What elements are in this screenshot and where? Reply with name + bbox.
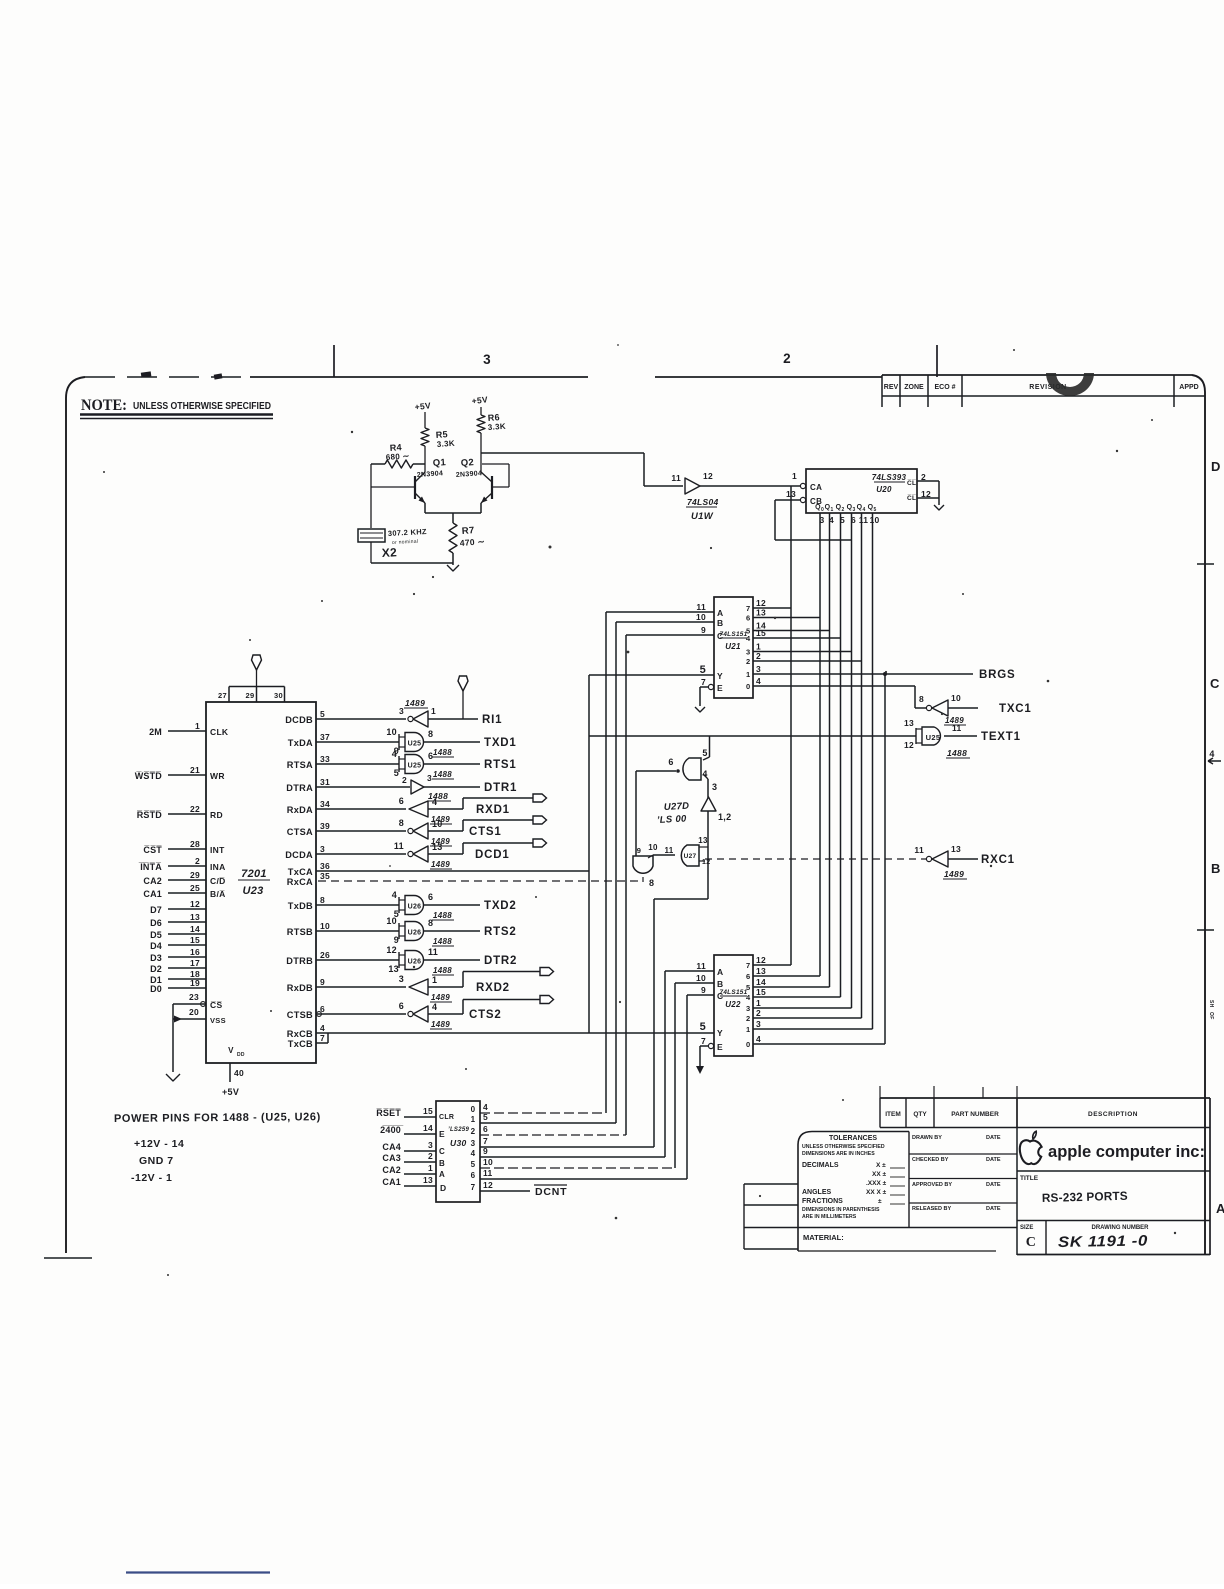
- svg-text:A: A: [717, 967, 723, 977]
- svg-text:9: 9: [320, 977, 325, 987]
- transistor Q2 2N3904: [456, 433, 509, 503]
- svg-text:13: 13: [388, 964, 399, 974]
- svg-text:DRAWING NUMBER: DRAWING NUMBER: [1092, 1225, 1150, 1231]
- svg-text:A: A: [439, 1170, 445, 1179]
- svg-text:1: 1: [746, 670, 750, 679]
- svg-text:4: 4: [432, 797, 437, 807]
- wire oscillator bottom: [371, 562, 453, 564]
- svg-text:11: 11: [696, 602, 706, 612]
- svg-text:CTS1: CTS1: [469, 826, 502, 838]
- svg-text:C/D̅: C/D̅: [210, 876, 226, 886]
- title block: parts list header: [880, 1086, 1210, 1128]
- node label BRGS: [979, 669, 1015, 681]
- svg-text:DTR2: DTR2: [484, 955, 517, 967]
- nand U27c (down): [633, 771, 654, 888]
- svg-text:INA: INA: [210, 862, 226, 872]
- svg-text:13: 13: [423, 1175, 433, 1185]
- +5V flag at R5: [414, 400, 431, 428]
- svg-text:10: 10: [951, 693, 961, 703]
- svg-text:30: 30: [274, 691, 283, 700]
- svg-text:TXC1: TXC1: [999, 703, 1032, 715]
- svg-text:DECIMALS: DECIMALS: [802, 1162, 839, 1169]
- svg-text:B: B: [717, 979, 723, 989]
- svg-text:9: 9: [701, 625, 706, 635]
- svg-text:10: 10: [386, 727, 397, 737]
- zone letter D: [1211, 459, 1221, 474]
- svg-text:21: 21: [190, 765, 200, 775]
- punch hole mark: [1046, 373, 1094, 396]
- svg-text:WR: WR: [210, 771, 225, 781]
- svg-text:8: 8: [320, 895, 325, 905]
- svg-text:W̅S̅T̅D̅: W̅S̅T̅D̅: [135, 771, 163, 781]
- ground at U21 E: [695, 687, 708, 712]
- svg-text:11: 11: [428, 947, 438, 957]
- svg-text:1489: 1489: [431, 993, 450, 1002]
- svg-text:RD: RD: [210, 810, 223, 820]
- svg-text:U30: U30: [450, 1138, 467, 1148]
- svg-text:1: 1: [432, 975, 437, 985]
- svg-text:U27: U27: [684, 853, 697, 860]
- svg-text:B: B: [439, 1159, 445, 1168]
- svg-text:29: 29: [190, 870, 200, 880]
- latch left input wires: [376, 1106, 436, 1187]
- svg-text:2̅4̅0̅0̅: 2̅4̅0̅0̅: [380, 1125, 404, 1135]
- zone letter A: [1216, 1201, 1224, 1216]
- svg-text:VSS: VSS: [210, 1016, 226, 1025]
- svg-text:2: 2: [746, 657, 750, 666]
- svg-text:RXD1: RXD1: [476, 804, 510, 816]
- svg-text:’LS 00: ’LS 00: [657, 813, 688, 826]
- svg-text:A: A: [717, 608, 723, 618]
- wire select bus B1: [615, 622, 617, 1123]
- title block: material row: [798, 1233, 996, 1251]
- svg-text:TEXT1: TEXT1: [981, 731, 1021, 743]
- svg-text:U22: U22: [725, 1000, 741, 1009]
- svg-text:D2: D2: [150, 964, 162, 974]
- svg-text:APPROVED BY: APPROVED BY: [912, 1182, 952, 1188]
- svg-text:D5: D5: [150, 930, 162, 940]
- svg-text:3: 3: [427, 773, 432, 783]
- receiver 1489 DCD1: [316, 839, 547, 869]
- svg-text:B: B: [717, 618, 723, 628]
- svg-text:DATE: DATE: [986, 1135, 1001, 1141]
- svg-text:5: 5: [471, 1160, 476, 1169]
- svg-text:2: 2: [195, 856, 200, 866]
- svg-text:11: 11: [671, 473, 681, 483]
- label U27 LS00: [657, 801, 690, 826]
- svg-text:+12V - 14: +12V - 14: [134, 1138, 184, 1150]
- title block: signoff cells: [909, 1098, 1017, 1255]
- svg-text:U26: U26: [408, 904, 422, 911]
- transistor Q1 2N3904: [371, 446, 447, 503]
- sio U23 7201: [206, 702, 316, 1063]
- ground at U22 E: [696, 1046, 708, 1074]
- svg-text:C̅L̅: C̅L̅: [907, 494, 916, 502]
- svg-text:TXD2: TXD2: [484, 900, 517, 912]
- svg-text:34: 34: [320, 799, 330, 809]
- right border ticks: [1197, 564, 1214, 930]
- svg-text:BRGS: BRGS: [979, 669, 1015, 681]
- receiver 1489 TXC1: [919, 693, 978, 725]
- svg-text:2: 2: [841, 507, 844, 513]
- svg-text:TxDA: TxDA: [288, 738, 313, 748]
- svg-text:C̅S̅T̅: C̅S̅T̅: [143, 845, 162, 855]
- svg-text:TXD1: TXD1: [484, 737, 517, 749]
- svg-text:SH: SH: [1208, 1000, 1214, 1008]
- svg-text:10: 10: [648, 843, 658, 852]
- svg-text:10: 10: [386, 916, 397, 926]
- svg-text:31: 31: [320, 777, 330, 787]
- counter U20 74LS393: [786, 469, 917, 525]
- svg-text:1: 1: [428, 1163, 433, 1173]
- svg-text:28: 28: [190, 839, 200, 849]
- wire TxCA net vertical: [588, 675, 590, 1033]
- svg-text:CA4: CA4: [382, 1142, 401, 1152]
- svg-text:12: 12: [756, 598, 766, 608]
- svg-text:INT: INT: [210, 845, 225, 855]
- svg-text:CA: CA: [810, 483, 822, 492]
- svg-text:74LS393: 74LS393: [872, 473, 907, 482]
- driver 1488 U25 TXD1: [316, 727, 517, 757]
- svg-text:U26: U26: [408, 930, 422, 937]
- svg-text:.XXX ±: .XXX ±: [866, 1180, 887, 1187]
- wire clock bus vertical: [790, 486, 792, 965]
- svg-text:D3: D3: [150, 953, 162, 963]
- revision block header: [882, 375, 1205, 407]
- svg-text:C̅S̅: C̅S̅: [210, 1000, 222, 1010]
- svg-text:7: 7: [471, 1183, 476, 1192]
- svg-text:74LS04: 74LS04: [687, 497, 719, 507]
- svg-text:5: 5: [702, 748, 707, 758]
- svg-text:2: 2: [428, 1151, 433, 1161]
- inverter U1W 74LS04: [671, 471, 718, 522]
- svg-text:MATERIAL:: MATERIAL:: [803, 1233, 844, 1242]
- svg-text:1489: 1489: [405, 698, 425, 708]
- svg-text:16: 16: [190, 947, 200, 957]
- svg-text:36: 36: [320, 861, 330, 871]
- wire Q0 bus vertical: [819, 513, 821, 976]
- svg-text:RTSB: RTSB: [287, 927, 313, 937]
- driver 1488 U25 RTS1: [316, 749, 517, 779]
- svg-text:DIMENSIONS ARE IN INCHES: DIMENSIONS ARE IN INCHES: [802, 1151, 875, 1157]
- svg-text:7: 7: [746, 961, 750, 970]
- wire RxCB TxCB to U22 Y: [316, 1033, 714, 1043]
- crystal X2 307.2 KHZ: [358, 464, 427, 563]
- svg-text:DIMENSIONS IN PARENTHESIS: DIMENSIONS IN PARENTHESIS: [802, 1207, 880, 1213]
- svg-text:U25: U25: [408, 741, 422, 748]
- svg-text:3.3K: 3.3K: [437, 439, 456, 449]
- nand U27a: [636, 748, 708, 780]
- driver 1488 U25 TEXT1: [904, 718, 977, 758]
- wire inverter to U20 CA: [700, 485, 800, 487]
- svg-text:2M: 2M: [149, 727, 162, 737]
- resistor R7 470: [449, 523, 485, 553]
- wire node BRGS: [753, 672, 973, 676]
- svg-text:SIZE: SIZE: [1020, 1225, 1033, 1231]
- svg-text:D: D: [440, 1183, 446, 1193]
- svg-text:5: 5: [394, 768, 399, 778]
- wire Q1 bus vertical: [829, 513, 831, 987]
- wire CB feedback from Q3: [775, 500, 852, 540]
- wire U23 top power bracket: [218, 687, 284, 703]
- svg-text:3: 3: [471, 1139, 476, 1148]
- svg-text:9: 9: [701, 985, 706, 995]
- svg-text:E: E: [439, 1129, 445, 1139]
- svg-text:DTRB: DTRB: [286, 956, 313, 966]
- svg-text:13: 13: [698, 836, 708, 845]
- svg-text:7: 7: [701, 677, 706, 687]
- svg-text:5: 5: [320, 709, 325, 719]
- wire select bus B2: [674, 983, 676, 1168]
- svg-text:2: 2: [756, 1008, 761, 1018]
- svg-text:12: 12: [702, 859, 710, 866]
- svg-text:15: 15: [423, 1106, 433, 1116]
- svg-text:RTS2: RTS2: [484, 926, 517, 938]
- svg-text:20: 20: [189, 1007, 199, 1017]
- svg-text:13: 13: [432, 842, 443, 852]
- latch output wires: [480, 1113, 687, 1191]
- svg-text:3: 3: [428, 1140, 433, 1150]
- svg-text:OF: OF: [1208, 1012, 1214, 1020]
- wire Q2 bus vertical: [840, 513, 842, 997]
- svg-text:U25: U25: [926, 733, 941, 742]
- svg-text:DATE: DATE: [986, 1157, 1001, 1163]
- svg-text:1: 1: [195, 721, 200, 731]
- svg-text:4: 4: [756, 676, 761, 686]
- svg-text:CA2: CA2: [143, 876, 162, 886]
- buffer U27 1,2-3: [701, 774, 731, 822]
- U23 VDD pin: [222, 1046, 245, 1097]
- svg-text:11: 11: [859, 515, 869, 525]
- svg-text:CTS2: CTS2: [469, 1009, 502, 1021]
- title block: left step rows: [744, 1184, 1017, 1249]
- svg-text:4: 4: [483, 1102, 488, 1112]
- svg-text:26: 26: [320, 950, 330, 960]
- svg-text:XX X ±: XX X ±: [866, 1189, 887, 1196]
- svg-text:1: 1: [756, 998, 761, 1008]
- svg-text:DTRA: DTRA: [286, 783, 313, 793]
- wire TEXT1 line: [589, 735, 916, 737]
- svg-text:D: D: [1211, 459, 1221, 474]
- wire oscillator output: [481, 453, 683, 486]
- svg-text:U23: U23: [242, 885, 263, 897]
- svg-text:X ±: X ±: [876, 1162, 886, 1169]
- wire RxCA dashed from U23: [318, 880, 641, 882]
- svg-text:15: 15: [756, 628, 766, 638]
- svg-text:3: 3: [399, 974, 404, 984]
- svg-text:12: 12: [190, 899, 200, 909]
- svg-text:UNLESS OTHERWISE SPECIFIED: UNLESS OTHERWISE SPECIFIED: [133, 401, 271, 412]
- +5V flag above U23: [252, 655, 262, 687]
- svg-text:4: 4: [432, 1002, 437, 1012]
- svg-text:D7: D7: [150, 905, 162, 915]
- svg-text:13: 13: [756, 608, 766, 618]
- svg-text:8: 8: [919, 694, 924, 704]
- driver 1488 U25 DTR1: [316, 773, 517, 801]
- svg-text:1,2: 1,2: [718, 812, 731, 822]
- svg-text:4: 4: [471, 1149, 476, 1158]
- svg-text:5: 5: [746, 983, 750, 992]
- svg-text:7201: 7201: [241, 868, 267, 880]
- svg-text:DATE: DATE: [986, 1182, 1001, 1188]
- svg-text:17: 17: [190, 958, 200, 968]
- svg-text:10: 10: [432, 819, 443, 829]
- receiver 1489 RXD1: [316, 794, 547, 824]
- svg-text:R̅S̅T̅D̅: R̅S̅T̅D̅: [137, 810, 163, 820]
- note heading: [80, 397, 273, 419]
- svg-text:35: 35: [320, 871, 330, 881]
- svg-text:22: 22: [190, 804, 200, 814]
- svg-text:3: 3: [712, 782, 717, 792]
- svg-text:R7: R7: [461, 525, 474, 537]
- svg-text:33: 33: [320, 754, 330, 764]
- receiver 1489 RXC1: [914, 844, 978, 879]
- svg-text:ECO #: ECO #: [934, 384, 955, 391]
- svg-text:U25: U25: [408, 763, 422, 770]
- svg-text:4: 4: [756, 1034, 761, 1044]
- svg-text:DCD1: DCD1: [475, 849, 510, 861]
- receiver 1489 RXD2: [316, 968, 554, 1003]
- latch U30 74LS259: [436, 1101, 493, 1202]
- svg-text:apple computer inc:: apple computer inc:: [1048, 1143, 1205, 1161]
- svg-text:13: 13: [756, 966, 766, 976]
- svg-text:12: 12: [386, 945, 397, 955]
- svg-text:D6: D6: [150, 918, 162, 928]
- wire select bus C1: [625, 635, 627, 1135]
- node label TEXT1: [981, 731, 1021, 743]
- wire buffer base down: [707, 811, 709, 899]
- svg-text:5: 5: [700, 1021, 706, 1033]
- wire collector node row: [371, 463, 425, 465]
- svg-text:6: 6: [471, 1171, 476, 1180]
- svg-text:7: 7: [701, 1036, 706, 1046]
- svg-text:1489: 1489: [431, 860, 450, 869]
- svg-text:DATE: DATE: [986, 1206, 1001, 1212]
- wire U22 select lines: [665, 971, 714, 995]
- sheet micro text: [1208, 1000, 1214, 1020]
- svg-text:GND 7: GND 7: [139, 1155, 174, 1167]
- receiver 1489 RI1: [316, 698, 478, 727]
- svg-text:ZONE: ZONE: [904, 384, 924, 391]
- svg-text:14: 14: [756, 977, 766, 987]
- svg-text:RELEASED BY: RELEASED BY: [912, 1206, 951, 1212]
- svg-text:U20: U20: [876, 485, 892, 494]
- mux U21 74LS151: [696, 597, 766, 698]
- driver 1488 U26 RTS2: [316, 916, 517, 946]
- svg-text:23: 23: [189, 992, 199, 1002]
- receiver 1489 CTS2: [316, 996, 554, 1030]
- svg-text:U26: U26: [408, 959, 422, 966]
- svg-text:3: 3: [320, 844, 325, 854]
- svg-text:0: 0: [746, 682, 750, 691]
- svg-text:4: 4: [320, 1023, 325, 1033]
- svg-text:470 ∼: 470 ∼: [459, 536, 485, 548]
- svg-text:+5V: +5V: [471, 394, 488, 406]
- svg-text:10: 10: [320, 921, 330, 931]
- svg-text:D0: D0: [150, 984, 162, 994]
- wire Q5 bus vertical: [872, 513, 874, 1029]
- svg-text:10: 10: [869, 515, 879, 525]
- svg-text:C: C: [717, 631, 723, 641]
- svg-text:CLK: CLK: [210, 727, 229, 737]
- svg-text:2: 2: [756, 651, 761, 661]
- svg-text:B/A̅: B/A̅: [210, 889, 226, 899]
- svg-text:NOTE:: NOTE:: [81, 397, 127, 414]
- svg-text:D4: D4: [150, 941, 162, 951]
- svg-text:2: 2: [783, 351, 791, 366]
- svg-text:1: 1: [431, 706, 436, 716]
- svg-text:2: 2: [746, 1014, 750, 1023]
- svg-text:13: 13: [190, 912, 200, 922]
- svg-text:8: 8: [428, 918, 433, 928]
- svg-text:13: 13: [904, 718, 914, 728]
- svg-text:6: 6: [428, 892, 433, 902]
- wire select bus A1: [605, 612, 607, 1113]
- node label TXC1: [999, 703, 1032, 715]
- wire cluster elbow down: [654, 899, 708, 1147]
- svg-text:4: 4: [862, 507, 865, 513]
- node label RXC1: [981, 854, 1015, 866]
- svg-text:TOLERANCES: TOLERANCES: [829, 1135, 877, 1142]
- svg-text:10: 10: [696, 973, 706, 983]
- svg-text:11: 11: [483, 1168, 493, 1178]
- node label DCNT: [534, 1185, 567, 1198]
- svg-text:DESCRIPTION: DESCRIPTION: [1088, 1111, 1138, 1118]
- svg-text:C: C: [717, 991, 723, 1001]
- svg-text:3: 3: [746, 648, 750, 657]
- svg-text:15: 15: [756, 987, 766, 997]
- svg-text:C̅L̅: C̅L̅: [907, 479, 916, 487]
- svg-text:’LS259: ’LS259: [448, 1127, 470, 1133]
- svg-text:12: 12: [483, 1180, 493, 1190]
- wire select bus C2: [686, 995, 688, 1179]
- svg-text:1: 1: [830, 507, 833, 513]
- +5V flag at RI1: [458, 676, 468, 719]
- svg-text:1488: 1488: [433, 911, 452, 920]
- svg-text:C: C: [1210, 676, 1220, 691]
- svg-text:1488: 1488: [433, 966, 452, 975]
- fold arrow mark: [1208, 749, 1221, 764]
- svg-text:27: 27: [218, 691, 227, 700]
- svg-text:RxCA: RxCA: [287, 877, 313, 887]
- zone letter C: [1210, 676, 1220, 691]
- svg-text:1488: 1488: [947, 748, 967, 758]
- U23 left pins: [135, 721, 229, 994]
- svg-text:12: 12: [904, 740, 914, 750]
- title block: size / drawing number: [1017, 1098, 1210, 1255]
- wire TEXT1 stem to gate: [703, 736, 710, 760]
- title block: title cell: [1017, 1171, 1210, 1205]
- svg-text:3: 3: [756, 1019, 761, 1029]
- svg-text:4: 4: [746, 993, 751, 1002]
- svg-text:TITLE: TITLE: [1020, 1175, 1039, 1182]
- node label RI1: [482, 714, 502, 726]
- ground at R7: [447, 553, 459, 571]
- zone ruler tick 3: [334, 345, 491, 377]
- svg-text:8: 8: [428, 729, 433, 739]
- svg-text:R̅S̅E̅T̅: R̅S̅E̅T̅: [376, 1108, 401, 1118]
- svg-text:PART NUMBER: PART NUMBER: [951, 1111, 999, 1118]
- svg-text:0: 0: [746, 1040, 750, 1049]
- svg-text:Y: Y: [717, 1028, 723, 1038]
- svg-text:±: ±: [878, 1198, 882, 1205]
- driver 1488 U26 TXD2: [316, 890, 517, 920]
- svg-text:7: 7: [320, 1033, 325, 1043]
- svg-text:DCDB: DCDB: [285, 715, 313, 725]
- svg-text:C: C: [1026, 1235, 1036, 1250]
- svg-text:4: 4: [746, 634, 751, 643]
- svg-text:DCDA: DCDA: [285, 850, 313, 860]
